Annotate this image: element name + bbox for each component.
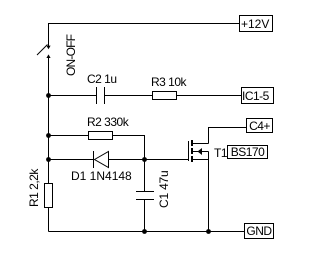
- net box C4+: [246, 118, 273, 133]
- junction node T1 source/ground rail: [206, 229, 211, 234]
- part box BS170: [227, 145, 268, 159]
- wire node to D1 cathode: [49, 159, 94, 161]
- junction node R2/left rail: [46, 133, 51, 138]
- wire T1 drain up and right to C4+ box: [209, 128, 247, 144]
- label R2 330k: [87, 116, 128, 128]
- capacitor C2 left plate: [96, 87, 98, 104]
- transistor T1 drain stub: [193, 143, 209, 145]
- transistor T1 channel segment top: [191, 140, 193, 146]
- transistor T1 source stub: [193, 159, 209, 161]
- junction node C1/ground rail: [142, 229, 147, 234]
- wire C2 to R3: [105, 95, 153, 97]
- wire C1 bottom plate to ground rail: [144, 200, 146, 232]
- wire T1 source down to ground rail: [208, 152, 210, 232]
- label C1 47u (rotated): [158, 171, 170, 209]
- label T1: [214, 147, 227, 159]
- net box GND: [244, 223, 274, 239]
- capacitor C1 top plate: [136, 191, 154, 193]
- wire top rail +12V: [49, 23, 240, 25]
- capacitor C1 bottom plate: [136, 199, 154, 201]
- diode D1 triangle: [95, 152, 109, 168]
- label D1 1N4148: [71, 170, 132, 182]
- transistor T1 body stub: [193, 151, 209, 153]
- switch top contact arrow: [46, 46, 50, 50]
- transistor T1 gate bar: [188, 141, 190, 161]
- diode D1 cathode bar: [93, 151, 95, 168]
- resistor R3: [152, 91, 177, 100]
- transistor T1 channel segment middle: [191, 148, 193, 154]
- wire node to C2 left plate: [49, 95, 97, 97]
- wire bottom ground rail: [49, 231, 245, 233]
- wire R2 right to corner: [112, 135, 145, 137]
- label C2 1u: [87, 73, 117, 85]
- net box IC1-5: [241, 87, 274, 104]
- junction node D1/left rail: [46, 157, 51, 162]
- transistor T1 body arrow: [198, 148, 203, 155]
- transistor T1 channel segment bottom: [191, 156, 193, 162]
- label ON-OFF (rotated): [65, 35, 77, 76]
- wire D1 anode to T1 gate: [109, 159, 189, 161]
- wire switch top lead: [48, 23, 50, 46]
- resistor R2: [88, 131, 113, 140]
- capacitor C2 right plate: [104, 87, 106, 104]
- junction node C2/left rail: [46, 93, 51, 98]
- resistor R1: [44, 183, 53, 208]
- junction node D1/C1: [142, 157, 147, 162]
- wire R1 bottom to ground rail corner: [48, 207, 50, 232]
- label R1 2,2k (rotated): [28, 169, 40, 207]
- wire node to R2: [49, 135, 89, 137]
- wire left rail (below switch, through nodes to R1): [48, 58, 50, 184]
- switch bottom contact arrow: [46, 54, 50, 58]
- wire R3 to IC1-5 box: [176, 95, 242, 97]
- switch blade: [37, 45, 48, 56]
- net box +12V: [239, 15, 273, 32]
- label R3 10k: [151, 76, 186, 88]
- wire corner down to D1 net and C1 top plate: [144, 136, 146, 192]
